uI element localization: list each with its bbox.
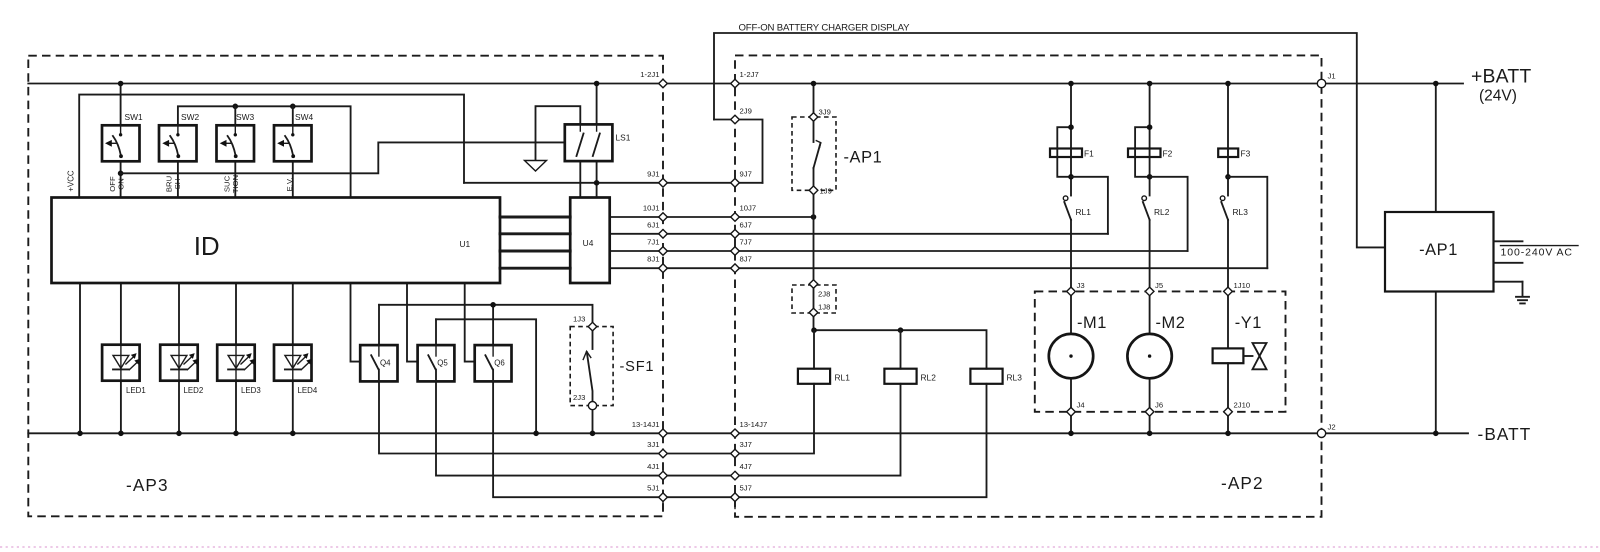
junction F2 on +BATT rail bbox=[1147, 81, 1153, 87]
svg-text:8J1: 8J1 bbox=[647, 255, 659, 264]
svg-text:RL2: RL2 bbox=[921, 372, 937, 382]
connector J2 bbox=[1317, 429, 1325, 437]
switch SW4 bbox=[274, 125, 312, 161]
wire ID-U4 bus line 4 (8) bbox=[500, 267, 570, 270]
transistor switch Q5 bbox=[418, 345, 455, 381]
wire F2 branch to 7J7 row bbox=[1150, 177, 1188, 251]
junction F1 loop bottom bbox=[1068, 174, 1074, 180]
svg-text:-AP2: -AP2 bbox=[1221, 473, 1264, 493]
svg-text:Q4: Q4 bbox=[380, 359, 391, 368]
svg-text:(24V): (24V) bbox=[1479, 88, 1517, 105]
connector 2J3 bbox=[588, 402, 596, 410]
wire SW4 top pin bbox=[292, 106, 294, 125]
wire F3 branch to 8J7 row bbox=[1228, 177, 1267, 268]
connector 5J7 bbox=[731, 493, 740, 502]
wire 1J9 down through 2J8/1J8 to relay coil bus bbox=[813, 195, 815, 331]
junction LS1 right pin on 9J1 row bbox=[594, 180, 600, 186]
ground symbol (charger earth) bbox=[1516, 282, 1529, 304]
wire +BATT top rail bbox=[28, 83, 1463, 85]
svg-text:9J1: 9J1 bbox=[647, 170, 659, 179]
LED LED2 bbox=[160, 345, 198, 381]
switch -SF1 (float switch contact) bbox=[583, 331, 592, 402]
motor -M1 (circle) bbox=[1049, 334, 1093, 378]
svg-text:LED4: LED4 bbox=[298, 386, 318, 395]
svg-text:RL3: RL3 bbox=[1233, 207, 1249, 217]
relay contact RL3 bbox=[1220, 196, 1228, 287]
junction charger on -BATT rail bbox=[1433, 431, 1439, 437]
svg-text:100-240V AC: 100-240V AC bbox=[1501, 246, 1573, 258]
motor M1 column wires bbox=[1070, 296, 1072, 434]
svg-text:5J7: 5J7 bbox=[740, 484, 752, 493]
connector 4J1 bbox=[659, 471, 668, 480]
wire SW3 top pin bbox=[234, 106, 236, 125]
connector 13-14J7 bbox=[731, 429, 740, 438]
svg-text:+VCC: +VCC bbox=[67, 170, 76, 192]
junction Q6 riser on SF1 bus bbox=[490, 302, 496, 308]
wire 8J1/8J7 row to F3 branch bbox=[610, 267, 1268, 269]
junction SW3 top on bus bbox=[233, 104, 239, 110]
connector 9J1 bbox=[659, 179, 668, 188]
connector 1J10 bbox=[1224, 287, 1233, 296]
wire -AP1 switch top pin to rail bbox=[813, 84, 815, 118]
switch SW2 bbox=[159, 125, 197, 161]
svg-text:1-2J7: 1-2J7 bbox=[740, 70, 759, 79]
relay contact RL2 bbox=[1142, 196, 1150, 287]
svg-text:-M2: -M2 bbox=[1156, 314, 1186, 332]
connector 3J1 bbox=[659, 449, 668, 458]
enclosure box -AP3 (dashed) bbox=[28, 56, 663, 517]
transistor switch Q6 bbox=[475, 345, 512, 381]
switch SW3 bbox=[217, 125, 255, 161]
junction SW1 bottom tap bbox=[118, 171, 124, 177]
wire F1 parallel loop bbox=[1057, 127, 1071, 177]
connector 4J7 bbox=[731, 471, 740, 480]
svg-text:LED1: LED1 bbox=[126, 386, 146, 395]
svg-text:J1: J1 bbox=[1328, 72, 1336, 81]
junction -AP1 switch on 10J7 row bbox=[811, 214, 817, 220]
svg-text:F3: F3 bbox=[1241, 149, 1251, 159]
svg-text:3J9: 3J9 bbox=[819, 108, 831, 117]
fuse F3 column wire bbox=[1227, 84, 1229, 196]
wire 7J1/7J7 row to F2 branch bbox=[610, 250, 1188, 252]
junction F1 on +BATT rail bbox=[1068, 81, 1074, 87]
connector 7J1 bbox=[659, 247, 668, 256]
wire ID output to Q6 input bbox=[465, 283, 475, 362]
junction SF1 on -BATT rail bbox=[590, 431, 596, 437]
svg-text:9J7: 9J7 bbox=[740, 170, 752, 179]
connector 9J7 bbox=[731, 179, 740, 188]
wire ID-U4 bus line 3 (7) bbox=[500, 250, 570, 253]
svg-text:F1: F1 bbox=[1084, 149, 1094, 159]
solenoid valve Y1 column wires bbox=[1227, 296, 1229, 434]
connector 5J1 bbox=[659, 493, 668, 502]
connector 10J1 bbox=[659, 213, 668, 222]
svg-text:RL2: RL2 bbox=[1154, 207, 1170, 217]
wire SW1 bottom pin to ID bbox=[120, 161, 122, 197]
junction LED3 on -BATT rail bbox=[233, 431, 239, 437]
relay contact RL1 bbox=[1063, 196, 1071, 287]
svg-text:ON: ON bbox=[117, 178, 126, 190]
connector 8J1 bbox=[659, 264, 668, 273]
ground symbol (open triangle) near LS1 bbox=[525, 161, 547, 172]
wire ID output to Q5 input bbox=[407, 283, 418, 362]
junction RL1 coil on bus bbox=[811, 327, 817, 333]
wire -BATT bottom rail bbox=[28, 432, 1468, 434]
junction F2 loop top bbox=[1147, 124, 1153, 130]
svg-text:7J1: 7J1 bbox=[647, 238, 659, 247]
wire Q4 top riser to SF1 bus bbox=[378, 305, 380, 345]
svg-text:J2: J2 bbox=[1328, 423, 1336, 432]
connector 1J9 bbox=[809, 186, 818, 195]
svg-text:OFF-ON BATTERY CHARGER DISPLAY: OFF-ON BATTERY CHARGER DISPLAY bbox=[739, 23, 911, 34]
connector 2J8 bbox=[809, 280, 818, 289]
junction LED1 on -BATT rail bbox=[118, 431, 124, 437]
svg-text:1J3: 1J3 bbox=[573, 315, 585, 324]
svg-text:4J1: 4J1 bbox=[647, 462, 659, 471]
junction Y1 on -BATT rail bbox=[1225, 431, 1231, 437]
junction F1 loop top bbox=[1068, 124, 1074, 130]
wire F2 parallel loop bbox=[1135, 127, 1150, 177]
solenoid coil -Y1 bbox=[1213, 348, 1244, 363]
svg-text:U1: U1 bbox=[460, 239, 471, 249]
connector 3J9 bbox=[809, 113, 818, 122]
svg-text:LS1: LS1 bbox=[616, 133, 631, 143]
svg-text:-M1: -M1 bbox=[1077, 314, 1107, 332]
connector 1J8 bbox=[809, 308, 818, 317]
svg-text:2J8: 2J8 bbox=[818, 290, 830, 299]
svg-text:1J8: 1J8 bbox=[818, 303, 830, 312]
motor M2 column wires bbox=[1149, 296, 1151, 434]
wire 4J7 row to RL2 coil bbox=[663, 384, 901, 476]
svg-text:RL1: RL1 bbox=[835, 372, 851, 382]
svg-text:TION: TION bbox=[231, 175, 240, 193]
connector 1J3 bbox=[588, 322, 597, 331]
wire SW2 bottom pin to ID bbox=[177, 161, 179, 197]
junction LED2 on -BATT rail bbox=[176, 431, 182, 437]
junction RL2 coil on bus bbox=[898, 327, 904, 333]
LED LED4 bbox=[274, 345, 312, 381]
junction SW1 on +BATT rail bbox=[118, 81, 124, 87]
connector 10J7 bbox=[731, 213, 740, 222]
svg-text:SW4: SW4 bbox=[295, 112, 313, 122]
svg-text:Q6: Q6 bbox=[494, 359, 505, 368]
fuse F2 column wire bbox=[1149, 84, 1151, 196]
connector 1-2J7 bbox=[731, 79, 740, 88]
label 100-240V AC (with overline) bbox=[1501, 245, 1579, 247]
connector 6J7 bbox=[731, 230, 740, 239]
enclosure box -AP1 middle switch (dashed) bbox=[792, 117, 836, 190]
motor -M2 (circle) bbox=[1127, 334, 1171, 378]
wire SF1 2J3 to -BATT rail bbox=[592, 410, 594, 434]
wire Q4 bottom to 3J1 row bbox=[379, 381, 663, 453]
svg-text:-AP3: -AP3 bbox=[126, 475, 169, 495]
wire LED4 column bbox=[292, 283, 294, 433]
svg-text:13-14J1: 13-14J1 bbox=[632, 420, 660, 429]
connector J5 bbox=[1145, 287, 1154, 296]
svg-text:E.V.: E.V. bbox=[285, 178, 294, 192]
connector 2J10 bbox=[1224, 408, 1233, 417]
component box ID (U1) bbox=[52, 198, 501, 284]
wire relay coil bus bbox=[814, 330, 987, 369]
fuse F1 body bbox=[1050, 149, 1082, 158]
wire Q5 top riser bbox=[435, 319, 437, 345]
fuse F3 body bbox=[1218, 149, 1238, 158]
svg-text:SW1: SW1 bbox=[125, 112, 143, 122]
wire LED2 column bbox=[178, 283, 180, 433]
wire SW1 top pin to rail bbox=[120, 84, 122, 126]
wire LED1 column bbox=[120, 283, 122, 433]
wire Y1 coil to valve bbox=[1243, 355, 1252, 357]
enclosure box -AP2 (dashed) bbox=[735, 55, 1322, 516]
svg-text:ID: ID bbox=[194, 231, 220, 261]
svg-text:+BATT: +BATT bbox=[1471, 66, 1531, 88]
junction M2 on -BATT rail bbox=[1147, 431, 1153, 437]
junction charger on +BATT rail bbox=[1433, 81, 1439, 87]
wire Q5 top bus down to -BATT rail bbox=[436, 319, 536, 433]
svg-text:10J7: 10J7 bbox=[740, 204, 757, 213]
svg-text:RL3: RL3 bbox=[1007, 372, 1023, 382]
wire 2J9 to 9J7 link bbox=[714, 120, 763, 183]
svg-text:4J7: 4J7 bbox=[740, 462, 752, 471]
svg-text:13-14J7: 13-14J7 bbox=[740, 420, 768, 429]
wire stub below 5J7 bbox=[734, 502, 736, 509]
fuse F2 body bbox=[1128, 149, 1161, 158]
svg-text:8J7: 8J7 bbox=[740, 255, 752, 264]
svg-text:6J1: 6J1 bbox=[647, 220, 659, 229]
junction F2 loop bottom bbox=[1147, 174, 1153, 180]
relay coil RL3 bbox=[970, 369, 1002, 384]
wire SW4 bottom pin to ID bbox=[292, 161, 294, 197]
connector J1 bbox=[1317, 79, 1325, 87]
component box U4 bbox=[570, 198, 610, 284]
LED LED1 (boxed LED symbol) bbox=[102, 345, 140, 381]
fuse F1 column wire bbox=[1070, 84, 1072, 196]
connector 13-14J1 bbox=[659, 429, 668, 438]
relay coil RL1 bbox=[798, 369, 830, 384]
wire ID-U4 bus line 2 (6) bbox=[500, 232, 570, 235]
transistor switch Q4 (boxed contact) bbox=[360, 345, 397, 381]
junction M1 on -BATT rail bbox=[1068, 431, 1074, 437]
wire SW3 bottom pin to ID bbox=[234, 161, 236, 197]
wire 3J7 row to RL1 coil bbox=[663, 384, 814, 454]
switch -AP1 (middle, display on-off) bbox=[814, 121, 821, 186]
wire 9J1/9J7 row bbox=[464, 182, 763, 184]
svg-text:2J10: 2J10 bbox=[1234, 401, 1251, 410]
connector 2J9 bbox=[731, 115, 740, 124]
svg-text:3J7: 3J7 bbox=[740, 440, 752, 449]
wire LS1 left pin bottom to U4 bbox=[579, 161, 581, 197]
svg-text:U4: U4 bbox=[583, 238, 594, 248]
enclosure box M1/M2/Y1 group (dashed) bbox=[1035, 291, 1286, 411]
wire battery charger top pin bbox=[1435, 84, 1437, 213]
battery charger box -AP1 (right) bbox=[1385, 212, 1494, 292]
switch SW1 (box with actuated contact) bbox=[102, 125, 140, 161]
svg-text:2J3: 2J3 bbox=[573, 393, 585, 402]
wire RL2 coil drop bbox=[900, 330, 902, 369]
svg-text:Q5: Q5 bbox=[437, 359, 448, 368]
junction Q5 bus on -BATT rail bbox=[533, 431, 539, 437]
connector 3J7 bbox=[731, 449, 740, 458]
junction F3 on +BATT rail bbox=[1225, 81, 1231, 87]
wire F1 branch to 6J7 row bbox=[1071, 177, 1108, 234]
svg-text:J4: J4 bbox=[1077, 401, 1086, 410]
wire 10J1/10J7 row to -AP1 switch bbox=[610, 216, 814, 218]
wire LS1 right pin bottom to U4 bbox=[596, 161, 598, 197]
junction SW4 top on bus bbox=[290, 104, 296, 110]
svg-text:5J1: 5J1 bbox=[647, 484, 659, 493]
connector 8J7 bbox=[731, 264, 740, 273]
svg-text:1-2J1: 1-2J1 bbox=[640, 70, 659, 79]
svg-text:-AP1: -AP1 bbox=[844, 149, 883, 167]
svg-text:-BATT: -BATT bbox=[1478, 424, 1532, 444]
svg-text:10J1: 10J1 bbox=[643, 204, 660, 213]
svg-text:J5: J5 bbox=[1155, 281, 1163, 290]
wire LS1 right pin top to rail bbox=[596, 84, 598, 125]
svg-text:7J7: 7J7 bbox=[740, 238, 752, 247]
wire OFF-ON BATTERY CHARGER DISPLAY net bbox=[714, 33, 1385, 247]
wire 5J7 row to RL3 coil bbox=[663, 384, 987, 497]
connector 1-2J1 bbox=[659, 79, 668, 88]
svg-text:RL1: RL1 bbox=[1076, 207, 1092, 217]
junction -AP1 switch on +BATT rail bbox=[811, 81, 817, 87]
wire Q4/Q6 bus to SF1 1J3 bbox=[379, 305, 593, 323]
switch LS1 (double-pole box) bbox=[565, 124, 613, 161]
svg-text:SW2: SW2 bbox=[181, 112, 199, 122]
wire 6J1/6J7 row to F1 branch bbox=[610, 233, 1108, 235]
wire LS1 ground branch bbox=[536, 106, 581, 160]
svg-text:6J7: 6J7 bbox=[740, 220, 752, 229]
wire LED3 column bbox=[235, 283, 237, 433]
wire SW2/SW3/SW4 top bus to ID pin bbox=[178, 106, 351, 197]
connector 7J7 bbox=[731, 247, 740, 256]
svg-text:-SF1: -SF1 bbox=[620, 359, 655, 375]
wire ID-U4 bus line 1 (10) bbox=[500, 216, 570, 219]
wire Q6 bottom to 5J1 row bbox=[493, 381, 663, 497]
connector J3 bbox=[1067, 287, 1076, 296]
wire Q5 bottom to 4J1 row bbox=[436, 381, 663, 475]
wire ID ground pin to bottom rail bbox=[79, 283, 81, 433]
svg-text:1J9: 1J9 bbox=[820, 187, 832, 196]
svg-text:J3: J3 bbox=[1077, 281, 1085, 290]
wire SW1 bottom bus to LS1 left pin bbox=[121, 142, 565, 173]
enclosure box -SF1 (dashed) bbox=[570, 327, 613, 406]
svg-text:F2: F2 bbox=[1163, 149, 1173, 159]
wire ID output to Q4 input bbox=[351, 283, 361, 362]
svg-text:LED3: LED3 bbox=[241, 386, 261, 395]
junction LED4 on -BATT rail bbox=[290, 431, 296, 437]
svg-text:2J9: 2J9 bbox=[740, 107, 752, 116]
terminal lines AC input bbox=[1494, 241, 1523, 281]
valve symbol (bowtie) for -Y1 bbox=[1253, 343, 1267, 369]
wire +VCC net: ID pin up, across, down to 9J1 row bbox=[79, 95, 464, 198]
LED LED3 bbox=[217, 345, 255, 381]
svg-text:J6: J6 bbox=[1155, 401, 1163, 410]
junction LS1 on +BATT rail bbox=[594, 81, 600, 87]
connector J4 bbox=[1067, 408, 1076, 417]
svg-text:LED2: LED2 bbox=[184, 386, 204, 395]
svg-text:SH: SH bbox=[173, 179, 182, 190]
wire stub below 5J1 bbox=[662, 502, 664, 509]
svg-text:1J10: 1J10 bbox=[1234, 281, 1251, 290]
wire battery charger bottom pin bbox=[1435, 292, 1437, 434]
enclosure box 2J8/1J8 connector pair (dashed) bbox=[792, 285, 836, 313]
wire Q6 top riser to SF1 bus bbox=[492, 305, 494, 345]
connector 6J1 bbox=[659, 230, 668, 239]
svg-text:SW3: SW3 bbox=[236, 112, 254, 122]
svg-text:-AP1: -AP1 bbox=[1419, 241, 1458, 259]
svg-text:-Y1: -Y1 bbox=[1235, 314, 1262, 332]
relay coil RL2 bbox=[884, 369, 916, 384]
connector J6 bbox=[1145, 408, 1154, 417]
svg-text:3J1: 3J1 bbox=[647, 440, 659, 449]
junction ID ground on -BATT rail bbox=[77, 431, 83, 437]
wire RL1 coil drop bbox=[813, 330, 815, 369]
junction F3 branch bbox=[1225, 174, 1231, 180]
decorative fold line (pink dotted) bbox=[0, 546, 1600, 548]
